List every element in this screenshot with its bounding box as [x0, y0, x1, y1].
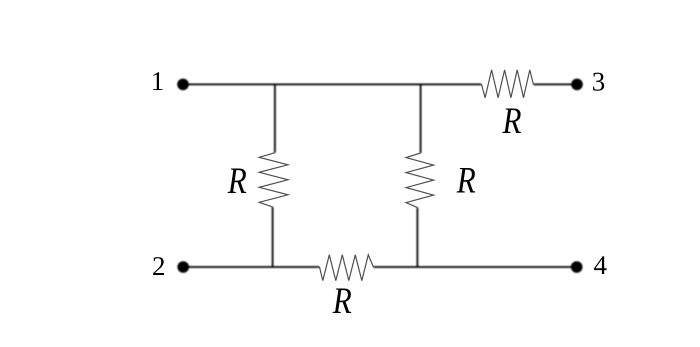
- svg-text:3: 3: [592, 67, 606, 97]
- svg-text:4: 4: [594, 250, 608, 280]
- svg-text:R: R: [227, 161, 247, 202]
- svg-text:R: R: [456, 161, 476, 202]
- svg-text:R: R: [502, 101, 522, 142]
- svg-text:1: 1: [151, 66, 165, 96]
- svg-text:2: 2: [152, 251, 166, 281]
- svg-text:R: R: [332, 281, 352, 322]
